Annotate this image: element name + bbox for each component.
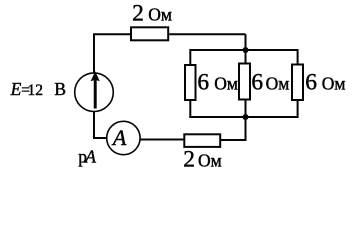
- wire R2 bottom stub: [189, 100, 191, 117]
- svg-text:A: A: [111, 125, 127, 150]
- svg-text:В: В: [54, 79, 66, 99]
- wire R4 bottom stub: [297, 100, 299, 117]
- svg-text:Ом: Ом: [198, 151, 222, 171]
- resistor R3 6 Ом (middle vertical): [239, 64, 250, 100]
- svg-text:6: 6: [197, 70, 209, 96]
- wire bottom bus: [189, 116, 298, 118]
- wire top bus with stubs to R2 and R4: [190, 50, 297, 65]
- svg-text:6: 6: [251, 70, 263, 96]
- wire node A feed down to R3: [245, 34, 247, 63]
- resistor R4 6 Ом (right vertical): [292, 65, 303, 101]
- node A junction dot: [243, 47, 249, 53]
- wire ammeter left to corner and up to source: [94, 112, 107, 138]
- resistor R5 2 Ом (bottom): [184, 134, 220, 147]
- wire R5 to ammeter: [140, 139, 184, 141]
- svg-text:2: 2: [183, 147, 195, 173]
- voltage source E1 circle: [75, 73, 114, 112]
- svg-text:6: 6: [305, 70, 317, 96]
- svg-text:Ом: Ом: [214, 74, 238, 94]
- svg-text:12: 12: [28, 82, 44, 99]
- ammeter PA1 circle: [107, 121, 140, 154]
- svg-text:A: A: [84, 146, 96, 166]
- svg-text:E: E: [10, 79, 22, 99]
- voltage source E1 arrow: [91, 71, 100, 108]
- svg-text:Ом: Ом: [266, 74, 290, 94]
- resistor R1 2 Ом (top): [131, 27, 168, 40]
- wire top-left: source top to R1: [94, 34, 131, 73]
- wire R1 to node A: [169, 33, 245, 35]
- wire R3 bottom stub: [245, 100, 247, 118]
- node B junction dot: [243, 114, 249, 120]
- svg-text:Ом: Ом: [322, 74, 346, 94]
- wire node B down and left to R5: [220, 116, 245, 140]
- svg-text:2: 2: [132, 1, 144, 27]
- svg-text:Ом: Ом: [148, 5, 172, 25]
- resistor R2 6 Ом (left vertical): [185, 65, 196, 100]
